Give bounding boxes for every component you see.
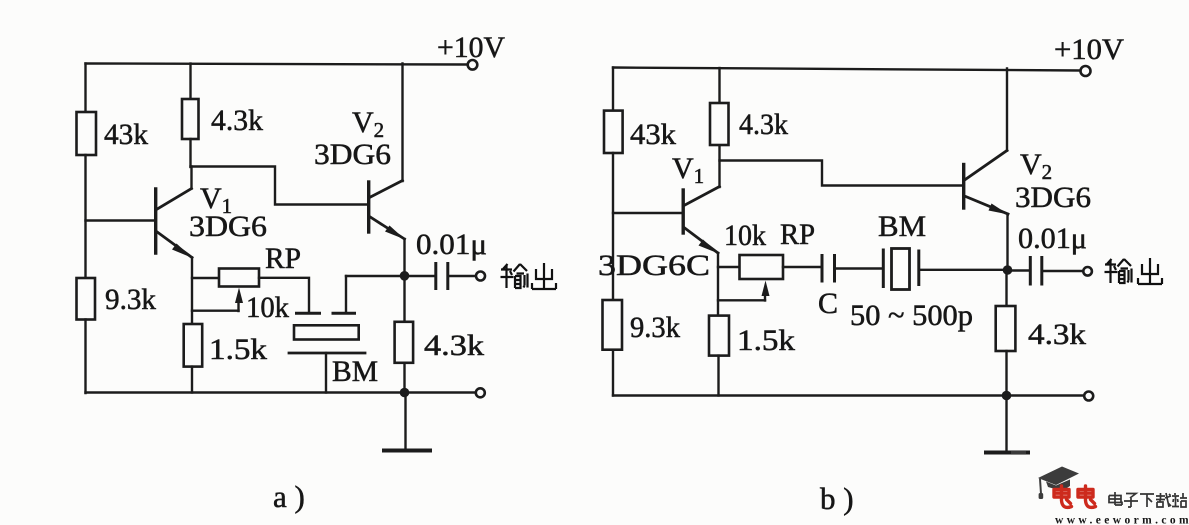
- transistor V2 (a): [369, 181, 405, 240]
- svg-text:1.5k: 1.5k: [209, 333, 267, 366]
- wire capacitor to crystal (b): [836, 267, 882, 269]
- label RP (a): [265, 242, 301, 275]
- svg-text:C: C: [818, 287, 838, 320]
- wire node to 4.3k (b): [1005, 270, 1007, 306]
- potentiometer RP (a): [219, 269, 259, 287]
- svg-text:V1: V1: [672, 152, 704, 188]
- label 4.3k lower (b): [1028, 318, 1086, 351]
- svg-text:1.5k: 1.5k: [737, 324, 795, 357]
- bottom terminal (b): [1084, 392, 1093, 401]
- svg-text:BM: BM: [332, 355, 378, 388]
- wire coupling V1 collector to V2 base (b): [720, 161, 963, 186]
- label 10k (a): [246, 291, 289, 324]
- crystal electrode plate 2 (a): [333, 312, 355, 315]
- node output junction (b): [1003, 265, 1013, 275]
- wire capacitor to output terminal (a): [448, 275, 476, 277]
- watermark graduation cap: [1038, 467, 1079, 500]
- label BM (a): [332, 355, 378, 388]
- output terminal (a): [476, 272, 485, 281]
- label V2 (b): [1020, 148, 1052, 184]
- svg-text:4.3k: 4.3k: [424, 329, 484, 362]
- char zi: [1124, 494, 1138, 508]
- wire node to capacitor (b): [1008, 269, 1029, 271]
- capacitor 0.01u (a): [436, 264, 448, 289]
- svg-text:4.3k: 4.3k: [739, 108, 788, 141]
- wire left rail upper (a): [84, 64, 86, 113]
- label 9.3k (a): [105, 283, 156, 316]
- RP wiper arrow (a): [235, 288, 243, 312]
- label 4.3k (b): [739, 108, 788, 141]
- svg-text:V2: V2: [352, 106, 384, 142]
- label 1.5k (a): [209, 333, 267, 366]
- wire wiper return to emitter (a): [192, 310, 239, 312]
- wire crystal plate to bottom rail (a): [325, 353, 327, 393]
- wire base of V1 (b): [613, 212, 682, 214]
- crystal ground plate (a): [289, 352, 365, 355]
- label 3DG6 of V2 (b): [1015, 181, 1091, 214]
- label b): [820, 481, 854, 516]
- wire wiper return to emitter (b): [718, 299, 765, 301]
- crystal electrode plate 1 (a): [297, 312, 320, 315]
- resistor 4.3k (b): [710, 103, 729, 145]
- resistor 4.3k R4 (a): [395, 322, 414, 363]
- resistor 43k (a): [77, 112, 97, 155]
- label 0.01u (a): [416, 228, 487, 261]
- svg-text:4.3k: 4.3k: [211, 104, 263, 137]
- label V1 (b): [672, 152, 704, 188]
- ground (b): [986, 396, 1028, 453]
- wire left rail lower (a): [84, 320, 86, 394]
- char dian: [1109, 492, 1122, 505]
- svg-text:b ): b ): [820, 481, 854, 516]
- wire top rail (b): [613, 68, 1080, 71]
- wire 1.5k to bottom rail (b): [717, 356, 719, 396]
- wire V2 collector to rail (a): [401, 64, 403, 182]
- label 0.01u (b): [1018, 222, 1087, 255]
- svg-text:RP: RP: [265, 242, 301, 275]
- svg-text:www.eeworm.com: www.eeworm.com: [1055, 515, 1189, 525]
- watermark url www.eeworm.com: [1055, 515, 1189, 525]
- svg-text:3DG6: 3DG6: [189, 210, 267, 243]
- wire node to capacitor (a): [405, 275, 435, 277]
- svg-text:4.3k: 4.3k: [1028, 318, 1086, 351]
- svg-text:3DG6: 3DG6: [1015, 181, 1091, 214]
- label 50~500p (b): [850, 299, 973, 332]
- wire crystal to output node (b): [919, 269, 1008, 271]
- svg-text:RP: RP: [780, 218, 815, 251]
- wire V1 collector to 4.3k (b): [718, 145, 720, 187]
- svg-text:0.01μ: 0.01μ: [1018, 222, 1087, 255]
- wire V2 collector to rail (b): [1006, 69, 1008, 151]
- wire output node to crystal electrode 2 (a): [346, 275, 405, 277]
- wire 4.3k bottom (a): [189, 139, 191, 167]
- wire bottom rail (a): [86, 391, 476, 393]
- svg-text:0.01μ: 0.01μ: [416, 228, 487, 261]
- svg-text:10k: 10k: [246, 291, 289, 324]
- node output junction (a): [400, 271, 410, 281]
- resistor 1.5k (a): [184, 324, 203, 367]
- wire top rail (a): [86, 64, 468, 65]
- +10V supply label (a): [437, 31, 505, 64]
- wire 1.5k to bottom rail (a): [191, 367, 193, 393]
- ground (a): [384, 393, 430, 451]
- label 4.3k R4 (a): [424, 329, 484, 362]
- wire V1 collector to 4.3k (a): [190, 167, 192, 189]
- svg-text:43k: 43k: [104, 118, 148, 151]
- transistor V1 (a): [156, 189, 193, 259]
- +10V terminal (b): [1081, 66, 1091, 76]
- label 43k (a): [104, 118, 148, 151]
- +10V supply label (b): [1054, 33, 1124, 66]
- label 1.5k (b): [737, 324, 795, 357]
- char zai: [1156, 493, 1171, 507]
- label 3DG6 of V2 (a): [314, 138, 391, 171]
- svg-text:3DG6C: 3DG6C: [598, 249, 710, 282]
- crystal BM body (a): [294, 325, 359, 339]
- transistor V1 (b): [683, 187, 719, 254]
- output terminal (b): [1083, 267, 1092, 276]
- svg-text:3DG6: 3DG6: [314, 138, 391, 171]
- svg-text:9.3k: 9.3k: [105, 283, 156, 316]
- wire left rail middle (a): [84, 155, 86, 278]
- label a): [273, 479, 305, 514]
- node bottom junction (a): [400, 388, 410, 398]
- label 10k RP (b): [724, 218, 815, 252]
- wire V2 emitter node to 4.3k (a): [403, 276, 405, 322]
- wire coupling V1 collector to V2 base (a): [191, 167, 368, 205]
- crystal BM (b): [883, 249, 919, 290]
- label BM (b): [878, 210, 926, 243]
- resistor 9.3k (b): [603, 300, 623, 350]
- bottom terminal (a): [476, 388, 485, 397]
- wire V2 emitter down (b): [1006, 214, 1008, 270]
- resistor 4.3k R2 (a): [182, 99, 199, 139]
- wire capacitor to output terminal (b): [1042, 270, 1083, 272]
- resistor 9.3k (a): [77, 278, 96, 320]
- resistor 1.5k (b): [709, 316, 729, 356]
- RP wiper arrow (b): [762, 281, 770, 301]
- svg-text:10k: 10k: [724, 219, 766, 252]
- svg-text:+10V: +10V: [1054, 33, 1124, 66]
- resistor 4.3k lower (b): [996, 306, 1016, 351]
- wire left rail middle (b): [612, 153, 614, 300]
- wire 4.3k top to rail (b): [718, 68, 720, 103]
- label V2 (a): [352, 106, 384, 142]
- crystal electrode 2 drop (a): [345, 276, 347, 312]
- char zhan: [1172, 493, 1187, 507]
- label shuchu output (b): [1105, 258, 1163, 284]
- wire 4.3k R4 to bottom rail (a): [403, 363, 405, 393]
- label V1 (a): [200, 182, 232, 218]
- wire RP right to capacitor C (b): [783, 266, 820, 268]
- wire RP right to crystal electrode 1 (a): [259, 278, 309, 312]
- wire bottom rail (b): [613, 394, 1084, 396]
- stray scan mark: [1011, 451, 1026, 455]
- label 3DG6C (b): [598, 249, 710, 282]
- wire 4.3k to bottom rail (b): [1005, 351, 1007, 396]
- char xia: [1140, 494, 1154, 507]
- transistor V2 (b): [964, 151, 1009, 215]
- svg-text:a ): a ): [273, 479, 305, 514]
- wire V1 emitter down (a): [191, 258, 193, 325]
- label 4.3k (a): [211, 104, 263, 137]
- wire emitter to RP left (b): [718, 266, 740, 268]
- label 43k (b): [630, 118, 676, 151]
- wire 4.3k top to rail (a): [189, 64, 191, 100]
- label shuchu output (a): [501, 263, 557, 289]
- watermark chongchong red characters: [1054, 486, 1096, 507]
- +10V terminal (a): [468, 60, 478, 70]
- wire left rail lower (b): [612, 350, 614, 396]
- label 9.3k (b): [630, 311, 680, 344]
- svg-text:50 ~ 500p: 50 ~ 500p: [850, 299, 973, 332]
- wire emitter to RP left (a): [192, 277, 219, 279]
- svg-text:43k: 43k: [630, 118, 676, 151]
- wire left rail upper (b): [612, 68, 614, 112]
- watermark text dianzi xiazaizhan: [1109, 492, 1187, 507]
- wire V1 emitter down (b): [717, 253, 719, 316]
- resistor 43k (b): [604, 111, 623, 153]
- capacitor 0.01u (b): [1030, 258, 1042, 285]
- potentiometer RP (b): [740, 255, 784, 279]
- node bottom junction (b): [1002, 391, 1012, 401]
- svg-text:BM: BM: [878, 210, 926, 243]
- svg-text:9.3k: 9.3k: [630, 311, 680, 344]
- label C (b): [818, 287, 838, 320]
- label 3DG6 (a): [189, 210, 267, 243]
- wire V2 emitter down (a): [403, 239, 405, 276]
- svg-text:V2: V2: [1020, 148, 1052, 184]
- wire base of V1 (a): [86, 219, 155, 221]
- capacitor C (b): [822, 256, 835, 282]
